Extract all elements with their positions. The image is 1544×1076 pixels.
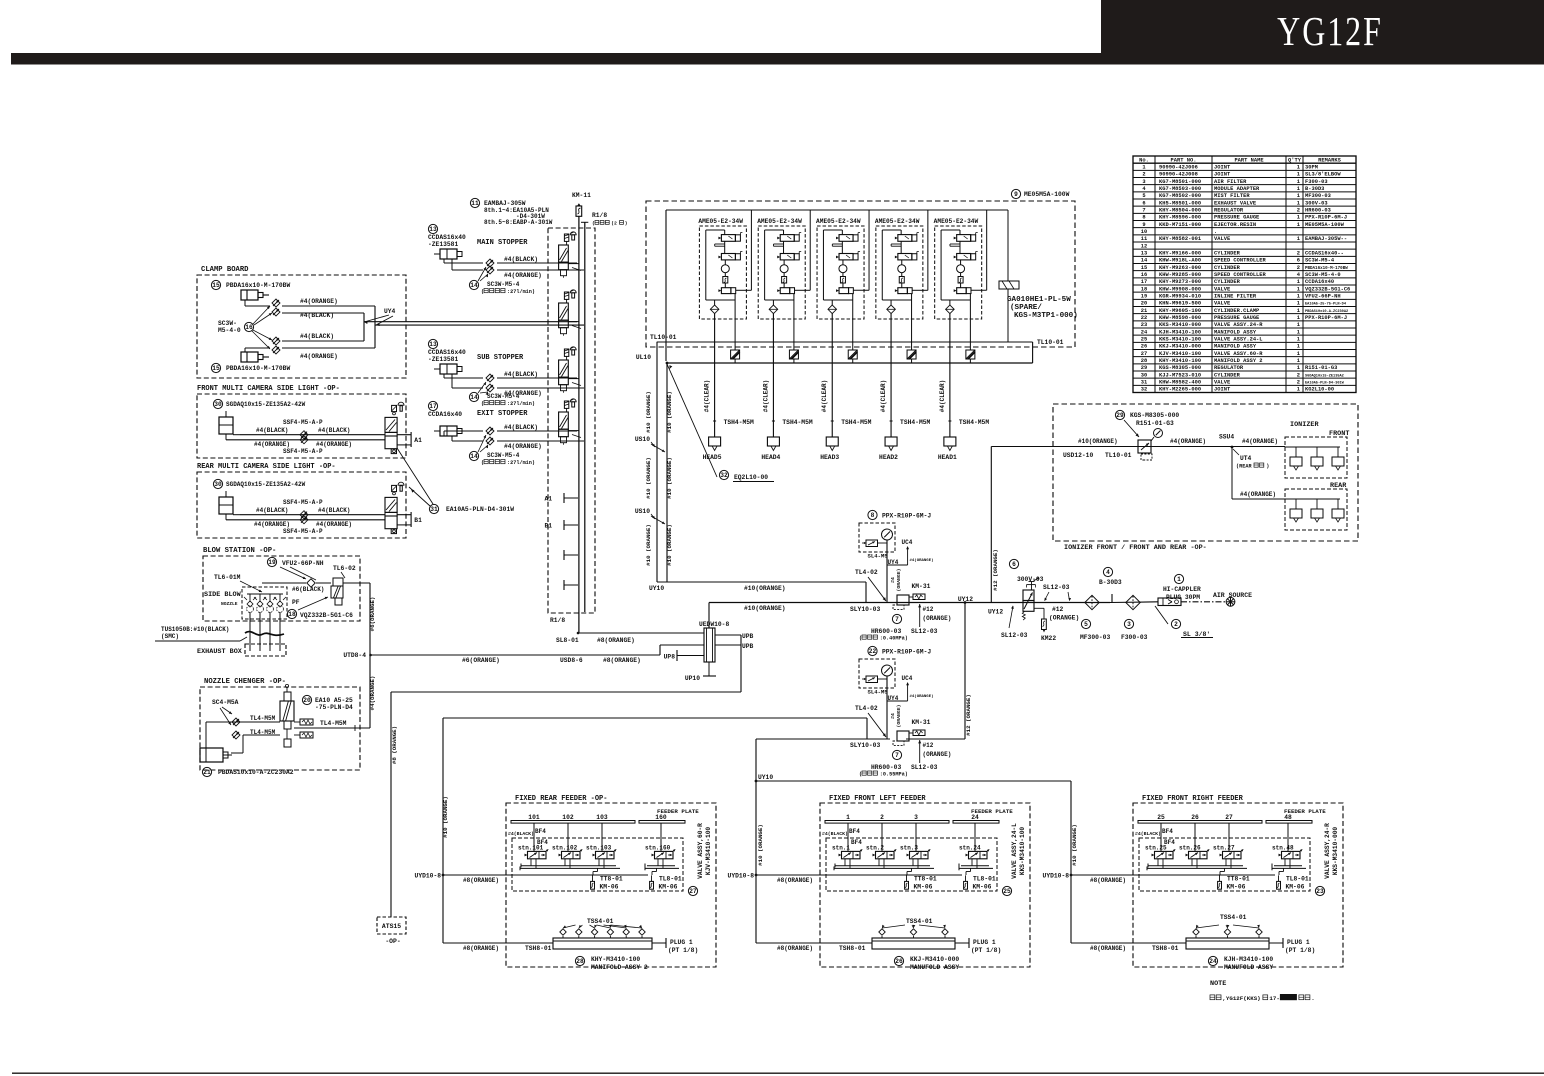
svg-text:27: 27 bbox=[689, 888, 697, 895]
svg-text:#4(BLACK): #4(BLACK) bbox=[318, 507, 350, 514]
svg-text:KJH-M3410-100: KJH-M3410-100 bbox=[1224, 956, 1273, 963]
check valve cluster 3 bbox=[831, 300, 833, 305]
header rule bar bbox=[11, 53, 1544, 65]
svg-text:SC3W-M5-4: SC3W-M5-4 bbox=[487, 393, 520, 400]
svg-text:25: 25 bbox=[1003, 888, 1011, 895]
svg-text:KM22: KM22 bbox=[1041, 635, 1056, 642]
svg-text:24: 24 bbox=[1141, 329, 1148, 335]
svg-text:20: 20 bbox=[303, 697, 311, 704]
svg-text:30: 30 bbox=[1141, 372, 1147, 378]
svg-text::27l/min): :27l/min) bbox=[507, 289, 535, 295]
svg-text:2: 2 bbox=[1297, 251, 1300, 257]
svg-text:stn.26: stn.26 bbox=[1179, 845, 1201, 852]
svg-text:IONIZER FRONT / FRONT AND REAR: IONIZER FRONT / FRONT AND REAR -OP- bbox=[1064, 544, 1207, 552]
wire ionizer rear feed bbox=[1231, 447, 1233, 499]
regulator 7 HR600-03 labels bbox=[892, 750, 901, 759]
svg-text:MANIFOLD ASSY 2: MANIFOLD ASSY 2 bbox=[1214, 358, 1263, 364]
wire ionizer front feed bbox=[1285, 446, 1340, 448]
stopper clamp valve v2 bbox=[564, 292, 568, 299]
svg-text:1: 1 bbox=[1177, 576, 1181, 583]
svg-text:KM-06: KM-06 bbox=[1227, 884, 1246, 891]
air filter 3 F300-03 bbox=[1126, 595, 1140, 609]
svg-text:SL3/8'ELBOW: SL3/8'ELBOW bbox=[1305, 172, 1341, 178]
feeder valve inner box bbox=[826, 838, 997, 891]
svg-text::0.55MPa): :0.55MPa) bbox=[880, 772, 908, 778]
speed controllers 14 MAIN STOPPER bbox=[486, 259, 494, 267]
svg-text:SL 3/8': SL 3/8' bbox=[1183, 631, 1210, 638]
svg-text:EQ2L10-00: EQ2L10-00 bbox=[734, 474, 768, 481]
svg-text:KKD-M7151-000: KKD-M7151-000 bbox=[1159, 222, 1201, 228]
svg-text:25: 25 bbox=[1157, 814, 1165, 821]
svg-text:TL8-01: TL8-01 bbox=[1286, 876, 1309, 883]
port B1 bbox=[397, 514, 411, 516]
title banner black box bbox=[1101, 0, 1544, 53]
feeder valve stn 103 bbox=[601, 823, 603, 851]
svg-text:KHY-M8596-000: KHY-M8596-000 bbox=[1159, 215, 1201, 221]
wire pilot feed cluster 5 bbox=[971, 289, 987, 291]
svg-text:SLY10-03: SLY10-03 bbox=[850, 606, 880, 613]
svg-text:(ORANGE): (ORANGE) bbox=[923, 751, 952, 758]
svg-text:1: 1 bbox=[1297, 337, 1300, 343]
svg-text:2: 2 bbox=[1142, 172, 1145, 178]
svg-text:#4(CLEAR): #4(CLEAR) bbox=[821, 380, 828, 412]
wire exhaust drop cluster 5 bbox=[969, 294, 971, 350]
feeder valve stn 2 bbox=[881, 823, 883, 851]
svg-text:KKJ-M3410-000: KKJ-M3410-000 bbox=[910, 956, 959, 963]
module adapter 4 B-30D3 bbox=[1103, 567, 1112, 576]
svg-text:KKS-M3410-100: KKS-M3410-100 bbox=[1159, 337, 1201, 343]
svg-text:KJV-M3410-100: KJV-M3410-100 bbox=[705, 827, 712, 876]
svg-text:R151-01-G3: R151-01-G3 bbox=[1305, 365, 1337, 371]
pilot valve B cluster 4 bbox=[898, 254, 912, 260]
svg-text:KHY-M8504-000: KHY-M8504-000 bbox=[1159, 208, 1201, 214]
ionizer rear unit 2 bbox=[1316, 499, 1318, 509]
svg-text:PLUG 1: PLUG 1 bbox=[1287, 939, 1310, 946]
wire side blow feed bbox=[262, 582, 306, 584]
ejector unit 9 box bbox=[1011, 189, 1020, 198]
blow nozzle 2 bbox=[259, 594, 261, 602]
svg-text:KKJ-M3410-000: KKJ-M3410-000 bbox=[1159, 344, 1201, 350]
svg-text:KGR-M9934-010: KGR-M9934-010 bbox=[1159, 294, 1201, 300]
svg-text:SL12-03: SL12-03 bbox=[911, 628, 938, 635]
svg-text:(ORANGE): (ORANGE) bbox=[896, 704, 902, 727]
main valve C cluster 1 bbox=[721, 288, 731, 294]
svg-text:TL4-02: TL4-02 bbox=[855, 705, 878, 712]
mist filter 5 MF300-03 bbox=[1085, 595, 1099, 609]
pilot valve A cluster 4 bbox=[898, 235, 912, 242]
valve 30 camera right bbox=[392, 405, 397, 411]
joint 2 SL 3/8 bbox=[1171, 619, 1180, 628]
svg-text:102: 102 bbox=[562, 814, 574, 821]
svg-text:12: 12 bbox=[1141, 243, 1147, 249]
svg-text:PLUG 1: PLUG 1 bbox=[973, 939, 996, 946]
svg-text:TSH4-M5M: TSH4-M5M bbox=[900, 419, 930, 426]
svg-text:CCDAS16x40: CCDAS16x40 bbox=[428, 234, 466, 241]
manifold assy label bbox=[1208, 956, 1217, 965]
cylinder MAIN STOPPER bbox=[428, 224, 437, 233]
svg-text:UC4: UC4 bbox=[902, 539, 913, 546]
svg-text:1: 1 bbox=[1297, 186, 1300, 192]
svg-text:MF300-03: MF300-03 bbox=[1080, 634, 1110, 641]
svg-text:ATS15: ATS15 bbox=[382, 923, 401, 930]
wire dash-dot to air source bbox=[1181, 601, 1226, 603]
feeder valve stn 102 bbox=[567, 823, 569, 851]
svg-text:17-: 17- bbox=[1269, 995, 1279, 1002]
svg-text:VQZ332B-5G1-C6: VQZ332B-5G1-C6 bbox=[300, 612, 353, 619]
svg-text:UP8: UP8 bbox=[664, 654, 676, 661]
valve assy circled 25 bbox=[1002, 886, 1011, 895]
svg-text:23: 23 bbox=[1316, 888, 1324, 895]
check valve cluster 5 bbox=[949, 300, 951, 305]
manifold assy label bbox=[575, 956, 584, 965]
svg-text:UEDW10-8: UEDW10-8 bbox=[699, 621, 729, 628]
cylinder 30 SGDAQ10x15 bbox=[213, 479, 222, 488]
svg-text:KHY-M3410-100: KHY-M3410-100 bbox=[1159, 358, 1201, 364]
svg-text:-ZE13581: -ZE13581 bbox=[428, 241, 458, 248]
suction filter cluster 1 bbox=[723, 277, 728, 284]
svg-text:SIDE BLOW: SIDE BLOW bbox=[204, 591, 242, 599]
svg-text:#4(BLACK): #4(BLACK) bbox=[300, 333, 334, 340]
svg-text:NOTE: NOTE bbox=[1210, 980, 1226, 988]
valve 30 camera right bbox=[392, 485, 397, 491]
svg-text:24: 24 bbox=[971, 814, 979, 821]
svg-text:17: 17 bbox=[429, 403, 437, 410]
wire riser to regulator line bbox=[990, 447, 992, 603]
svg-text:stn.101: stn.101 bbox=[518, 845, 544, 852]
head nozzle HEAD3 bbox=[826, 437, 838, 446]
svg-text:IONIZER: IONIZER bbox=[1290, 421, 1319, 429]
svg-text:KHY-M9605-100: KHY-M9605-100 bbox=[1159, 308, 1201, 314]
manifold body bbox=[872, 938, 955, 949]
svg-text:4: 4 bbox=[1106, 569, 1110, 576]
svg-text:#8(ORANGE): #8(ORANGE) bbox=[1090, 877, 1126, 884]
svg-text:KHW-M918L-A00: KHW-M918L-A00 bbox=[1159, 258, 1201, 264]
svg-text:SC3W-M5-4: SC3W-M5-4 bbox=[1305, 258, 1335, 264]
svg-text:#6(ORANGE): #6(ORANGE) bbox=[369, 597, 376, 632]
svg-text:KGS-M3TP1-000): KGS-M3TP1-000) bbox=[1014, 312, 1078, 320]
svg-text:UL10: UL10 bbox=[636, 354, 651, 361]
svg-text:R1/8: R1/8 bbox=[550, 617, 565, 624]
svg-text:UY4: UY4 bbox=[888, 559, 899, 566]
svg-text:5: 5 bbox=[1084, 621, 1088, 628]
svg-text:KM-11: KM-11 bbox=[572, 192, 591, 199]
wires stopper EXIT STOPPER bbox=[443, 431, 445, 436]
svg-text:KG7-M8503-000: KG7-M8503-000 bbox=[1159, 186, 1201, 192]
svg-text:1: 1 bbox=[1297, 193, 1300, 199]
svg-text:TL4-M5M: TL4-M5M bbox=[320, 720, 347, 727]
svg-text:28: 28 bbox=[576, 958, 584, 965]
svg-text:15: 15 bbox=[1141, 265, 1147, 271]
svg-text:#4(ORANGE): #4(ORANGE) bbox=[1170, 438, 1206, 445]
wire main line right segment bbox=[1110, 601, 1158, 604]
wire rear feeder bottom bbox=[443, 942, 553, 944]
valve stopper MAIN STOPPER bbox=[564, 234, 568, 241]
svg-text:#4(ORANGE): #4(ORANGE) bbox=[300, 298, 338, 305]
svg-text:#10(ORANGE): #10(ORANGE) bbox=[1078, 438, 1118, 445]
ATS15 option box bbox=[377, 917, 406, 934]
pilot valve B cluster 1 bbox=[721, 254, 735, 260]
cylinder 21 PBDAS10x10 bbox=[200, 748, 223, 762]
svg-text:UC4: UC4 bbox=[902, 675, 913, 682]
svg-text:1: 1 bbox=[1297, 215, 1300, 221]
svg-text:1: 1 bbox=[846, 814, 850, 821]
svg-text:CYLINDER: CYLINDER bbox=[1214, 279, 1241, 285]
suction filter cluster 2 bbox=[782, 277, 787, 284]
svg-text:TSH4-M5M: TSH4-M5M bbox=[724, 419, 754, 426]
svg-text:14: 14 bbox=[470, 453, 478, 460]
svg-text:SPEED CONTROLLER: SPEED CONTROLLER bbox=[1214, 258, 1267, 264]
svg-text:#4(ORANGE): #4(ORANGE) bbox=[369, 676, 376, 711]
svg-text:PPX-R10P-6M-J: PPX-R10P-6M-J bbox=[882, 649, 931, 656]
svg-text:TL4-M5M: TL4-M5M bbox=[250, 715, 276, 722]
svg-text:1: 1 bbox=[1297, 358, 1300, 364]
svg-text:HEAD5: HEAD5 bbox=[703, 454, 722, 461]
svg-text::27l/min): :27l/min) bbox=[507, 401, 535, 407]
svg-text:#10 (ORANGE): #10 (ORANGE) bbox=[442, 796, 449, 838]
svg-text:TSH4-M5M: TSH4-M5M bbox=[959, 419, 989, 426]
vacuum gauge port cluster 4 bbox=[901, 260, 903, 265]
svg-text:TSH4-M5M: TSH4-M5M bbox=[782, 419, 812, 426]
svg-text:No.: No. bbox=[1139, 157, 1149, 163]
svg-text:KHY-M9273-000: KHY-M9273-000 bbox=[1159, 279, 1201, 285]
svg-text:1: 1 bbox=[1297, 294, 1300, 300]
svg-text:(PT 1/8): (PT 1/8) bbox=[668, 947, 698, 954]
svg-text:REGULATOR: REGULATOR bbox=[1214, 365, 1244, 371]
svg-text:USD8-6: USD8-6 bbox=[560, 657, 583, 664]
regulator 7 HR600-03 labels bbox=[892, 614, 901, 623]
svg-text:KM-31: KM-31 bbox=[912, 719, 931, 726]
svg-text:-OP-: -OP- bbox=[385, 938, 400, 945]
svg-text:KJH-M3410-100: KJH-M3410-100 bbox=[1159, 329, 1201, 335]
svg-text:HR600-03: HR600-03 bbox=[1305, 208, 1331, 214]
regulator 29 KGS-M8305 bbox=[1115, 410, 1124, 419]
svg-text:CYLINDER.CLAMP: CYLINDER.CLAMP bbox=[1214, 308, 1259, 314]
svg-text:MANIFOLD ASSY: MANIFOLD ASSY bbox=[1214, 329, 1257, 335]
svg-text:KM-06: KM-06 bbox=[600, 884, 619, 891]
ionizer rear unit 3 bbox=[1337, 499, 1339, 509]
svg-text:#4(ORANGE): #4(ORANGE) bbox=[504, 272, 542, 279]
suction filter cluster 4 bbox=[899, 277, 904, 284]
svg-text:EJECTOR.RESIN: EJECTOR.RESIN bbox=[1214, 222, 1256, 228]
svg-text:9: 9 bbox=[1014, 191, 1018, 198]
svg-text:(PT 1/8): (PT 1/8) bbox=[971, 947, 1001, 954]
svg-text:(: ( bbox=[592, 221, 595, 227]
svg-text:KHW-M8598-000: KHW-M8598-000 bbox=[1159, 315, 1201, 321]
feeder valve stn 25 bbox=[1160, 823, 1162, 851]
svg-text:VALVE ASSY,24-L: VALVE ASSY,24-L bbox=[1011, 823, 1018, 879]
svg-text:KGS-M8305-000: KGS-M8305-000 bbox=[1130, 412, 1179, 419]
svg-text:AIR FILTER: AIR FILTER bbox=[1214, 179, 1247, 185]
svg-text:(ORANGE): (ORANGE) bbox=[896, 568, 902, 591]
terminal UP8 bbox=[677, 655, 704, 657]
svg-text:#8(ORANGE): #8(ORANGE) bbox=[463, 945, 499, 952]
manifold check valve 1 bbox=[560, 929, 566, 935]
svg-text:1: 1 bbox=[1297, 344, 1300, 350]
svg-text:MANUFOLD ASSY: MANUFOLD ASSY bbox=[910, 964, 959, 971]
wire UTD8-4 vertical bbox=[369, 583, 371, 728]
svg-text:UTD8-4: UTD8-4 bbox=[343, 652, 366, 659]
svg-text:US10: US10 bbox=[635, 508, 650, 515]
svg-text:TUS1050B:#10(BLACK): TUS1050B:#10(BLACK) bbox=[161, 626, 229, 633]
svg-text:13: 13 bbox=[429, 341, 437, 348]
svg-text:21: 21 bbox=[203, 769, 211, 776]
breather TL8-01 bbox=[656, 868, 658, 871]
svg-text:#4(ORANGE): #4(ORANGE) bbox=[316, 521, 352, 528]
svg-text:1: 1 bbox=[1297, 286, 1300, 292]
inline filter 19 VFU2-66P-NH bbox=[267, 557, 276, 566]
svg-text:B1: B1 bbox=[544, 523, 552, 530]
feeder bus UYD10-8 bbox=[756, 874, 962, 876]
svg-text:#12 (ORANGE): #12 (ORANGE) bbox=[992, 549, 999, 591]
svg-text:13: 13 bbox=[429, 226, 437, 233]
svg-text:KHY-M8582-001: KHY-M8582-001 bbox=[1159, 236, 1201, 242]
svg-text:22: 22 bbox=[1141, 315, 1147, 321]
wire UPB stubs bbox=[715, 634, 741, 636]
wire collector cluster 2 bbox=[765, 299, 794, 301]
wire feeder supply upper bbox=[443, 717, 867, 719]
wire collector cluster 3 bbox=[823, 299, 852, 301]
svg-text:160: 160 bbox=[655, 814, 667, 821]
leader 32 EQ2L10-00 bbox=[667, 364, 717, 477]
svg-text:AME05-E2-34W: AME05-E2-34W bbox=[757, 218, 802, 225]
svg-text:-75-PLN-D4: -75-PLN-D4 bbox=[315, 704, 353, 711]
svg-text:#4(ORANGE): #4(ORANGE) bbox=[300, 353, 338, 360]
svg-text:UP10: UP10 bbox=[685, 675, 700, 682]
svg-text:PBDA16x10-M-170BW: PBDA16x10-M-170BW bbox=[226, 282, 290, 289]
svg-text:1: 1 bbox=[1297, 200, 1300, 206]
svg-text:AME05-E2-34W: AME05-E2-34W bbox=[934, 218, 979, 225]
svg-text:#8(ORANGE): #8(ORANGE) bbox=[597, 637, 635, 644]
wire pilot feed cluster 2 bbox=[795, 289, 811, 291]
svg-text:#10 (ORANGE): #10 (ORANGE) bbox=[645, 391, 652, 433]
svg-text:INLINE FILTER: INLINE FILTER bbox=[1214, 294, 1257, 300]
svg-text:HR600-03: HR600-03 bbox=[871, 764, 901, 771]
svg-text:SL4-M5: SL4-M5 bbox=[868, 689, 889, 696]
svg-text:PART NAME: PART NAME bbox=[1234, 157, 1264, 163]
vacuum gauge port cluster 3 bbox=[842, 260, 844, 265]
svg-text:#10 (ORANGE): #10 (ORANGE) bbox=[666, 391, 673, 433]
svg-text:KHW-M9908-000: KHW-M9908-000 bbox=[1159, 286, 1201, 292]
main valve C cluster 3 bbox=[839, 288, 849, 294]
svg-text:NOZZLE CHENGER -OP-: NOZZLE CHENGER -OP- bbox=[204, 678, 286, 686]
wires stopper MAIN STOPPER bbox=[443, 259, 445, 263]
svg-text:MODULE ADAPTER: MODULE ADAPTER bbox=[1214, 186, 1260, 192]
svg-text:300V-03: 300V-03 bbox=[1305, 200, 1328, 206]
svg-text:-ZE13581: -ZE13581 bbox=[428, 356, 458, 363]
svg-text:6: 6 bbox=[1142, 200, 1145, 206]
svg-text:KHN-M9619-500: KHN-M9619-500 bbox=[1159, 301, 1201, 307]
svg-text:SL12-03: SL12-03 bbox=[1001, 632, 1028, 639]
svg-text:UY10: UY10 bbox=[758, 774, 773, 781]
pressure gauge 22 PPX-R10P-6M-J bbox=[868, 646, 877, 655]
svg-text:stn.48: stn.48 bbox=[1272, 845, 1294, 852]
leader lines to valve 31 label bbox=[397, 448, 433, 504]
svg-text:M5-4-0: M5-4-0 bbox=[218, 327, 241, 334]
svg-text:B1: B1 bbox=[414, 517, 422, 524]
wire UY10 horizontal bbox=[657, 581, 866, 583]
svg-text:#4: #4 bbox=[890, 713, 896, 719]
svg-text:#10 (ORANGE): #10 (ORANGE) bbox=[645, 457, 652, 499]
svg-text:.: . bbox=[1214, 229, 1217, 235]
breather TL8-01 bbox=[1283, 868, 1285, 871]
feeder valve stn 24 bbox=[974, 823, 976, 851]
svg-text:EA10 A5-25: EA10 A5-25 bbox=[315, 697, 353, 704]
svg-text:GA010HE1-PL-5W: GA010HE1-PL-5W bbox=[1007, 296, 1071, 304]
svg-text:#12: #12 bbox=[923, 742, 934, 749]
svg-text:): ) bbox=[1266, 464, 1269, 470]
svg-text:KKS-M3410-000: KKS-M3410-000 bbox=[1159, 322, 1201, 328]
svg-text:31: 31 bbox=[1141, 380, 1147, 386]
pilot valve B cluster 2 bbox=[780, 254, 794, 260]
svg-text:VALVE: VALVE bbox=[1214, 236, 1231, 242]
svg-text:18: 18 bbox=[288, 611, 296, 618]
svg-text:KHW-M8582-400: KHW-M8582-400 bbox=[1159, 380, 1201, 386]
head line 2 bbox=[890, 363, 892, 437]
blow nozzle 3 bbox=[269, 594, 271, 602]
wire USD8-6 into union bbox=[371, 654, 660, 656]
wire pilot feed cluster 4 bbox=[912, 289, 928, 291]
wire collector cluster 5 bbox=[941, 299, 970, 301]
svg-text:MANIFOLD ASSY: MANIFOLD ASSY bbox=[1214, 344, 1257, 350]
svg-text:#4(ORANGE): #4(ORANGE) bbox=[504, 443, 542, 450]
svg-text:(SPARE/: (SPARE/ bbox=[1010, 304, 1042, 312]
svg-text:#8(ORANGE): #8(ORANGE) bbox=[1090, 945, 1126, 952]
svg-text::0.40MPa): :0.40MPa) bbox=[880, 636, 908, 642]
head nozzle HEAD4 bbox=[767, 437, 779, 446]
svg-text:18: 18 bbox=[1141, 286, 1147, 292]
svg-text:VALVE ASSY.24-R: VALVE ASSY.24-R bbox=[1214, 322, 1263, 328]
speed controllers 16 lower pair bbox=[272, 337, 280, 345]
svg-text:26: 26 bbox=[895, 958, 903, 965]
svg-text:HI-CAPPLER: HI-CAPPLER bbox=[1163, 586, 1201, 593]
svg-text:#10 (ORANGE): #10 (ORANGE) bbox=[666, 524, 673, 566]
svg-text:#4: #4 bbox=[890, 577, 896, 583]
wire nozzle drop bbox=[269, 612, 271, 651]
breather TT8-01 bbox=[911, 868, 913, 871]
wire manifold vertical buses bbox=[578, 216, 580, 633]
svg-text:stn.24: stn.24 bbox=[959, 845, 981, 852]
svg-text:#4(CLEAR): #4(CLEAR) bbox=[762, 380, 769, 412]
svg-text:TSS4-01: TSS4-01 bbox=[1220, 914, 1247, 921]
svg-text:#4(ORANGE): #4(ORANGE) bbox=[910, 694, 934, 699]
svg-text:KHY-M9263-000: KHY-M9263-000 bbox=[1159, 265, 1201, 271]
svg-text:stn.3: stn.3 bbox=[900, 845, 918, 852]
wire nozzle drop bbox=[259, 612, 261, 651]
svg-text:stn.25: stn.25 bbox=[1145, 845, 1167, 852]
svg-text:27: 27 bbox=[1141, 351, 1147, 357]
svg-text:US10: US10 bbox=[635, 436, 650, 443]
svg-text:2: 2 bbox=[1297, 372, 1300, 378]
manifold check valve 2 bbox=[910, 929, 916, 935]
manifold assy label bbox=[894, 956, 903, 965]
svg-text:F300-03: F300-03 bbox=[1121, 634, 1148, 641]
svg-text:HR600-03: HR600-03 bbox=[871, 628, 901, 635]
svg-text:HEAD2: HEAD2 bbox=[879, 454, 898, 461]
svg-text:31: 31 bbox=[430, 506, 438, 513]
svg-text:SSF4-M5-A-P: SSF4-M5-A-P bbox=[283, 528, 323, 535]
wire nozzle drop bbox=[279, 612, 281, 651]
wire exhaust drop cluster 3 bbox=[852, 294, 854, 350]
svg-text:#12: #12 bbox=[1052, 606, 1064, 613]
svg-text:14: 14 bbox=[470, 394, 478, 401]
svg-text:#4(ORANGE): #4(ORANGE) bbox=[254, 521, 290, 528]
ionizer front unit 2 bbox=[1316, 447, 1318, 457]
valve assy circled 27 bbox=[688, 886, 697, 895]
wire gauge drop bbox=[886, 676, 888, 739]
svg-text:16: 16 bbox=[245, 324, 253, 331]
svg-text:#4(ORANGE): #4(ORANGE) bbox=[316, 441, 352, 448]
svg-text:JOINT: JOINT bbox=[1214, 387, 1231, 393]
